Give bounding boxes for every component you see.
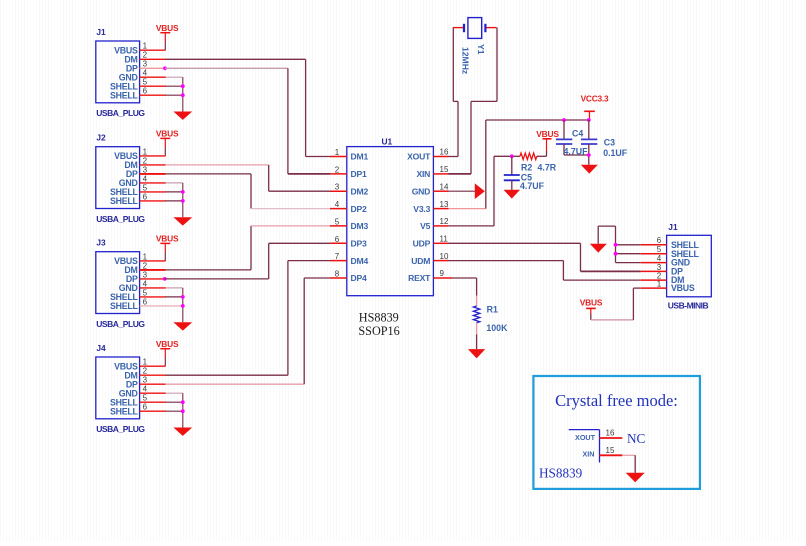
svg-text:3: 3 — [657, 263, 662, 272]
ground symbol at USB-MINIB — [590, 244, 607, 253]
svg-text:1: 1 — [143, 147, 148, 156]
svg-text:UDM: UDM — [411, 256, 430, 266]
wire U1.GND pin14 — [449, 190, 476, 192]
svg-text:Crystal free mode:: Crystal free mode: — [555, 391, 678, 410]
svg-text:NC: NC — [627, 431, 646, 446]
junction J2 shell pin5 — [181, 190, 185, 194]
junction rail/C4 top — [562, 118, 566, 122]
svg-text:VBUS: VBUS — [156, 23, 179, 33]
wire J3 pin4 GND to ground — [140, 288, 183, 322]
pin stubs U1 right — [433, 157, 448, 279]
svg-text:SSOP16: SSOP16 — [358, 324, 399, 338]
wire USB-MINIB shells/GND to ground — [598, 226, 641, 263]
wire J1 pin4 GND to ground — [140, 77, 183, 111]
svg-text:U1: U1 — [382, 136, 393, 146]
wire J2 pin3 DP stub — [140, 173, 166, 175]
svg-text:C3: C3 — [604, 138, 615, 148]
svg-text:XIN: XIN — [416, 169, 430, 179]
ground symbol at J2 — [173, 217, 192, 225]
svg-text:VBUS: VBUS — [156, 234, 179, 244]
svg-text:DM1: DM1 — [351, 152, 369, 162]
svg-text:5: 5 — [657, 245, 662, 254]
wire net J2.DM to U1.DM2 — [166, 165, 331, 191]
svg-text:1: 1 — [143, 358, 148, 367]
svg-text:DP4: DP4 — [351, 273, 368, 283]
power VBUS symbol at USB-MINIB — [580, 297, 603, 314]
ground symbol at J3 — [173, 322, 192, 330]
svg-text:5: 5 — [143, 183, 148, 192]
wire J2 pin6 SHELL — [140, 200, 166, 202]
power VBUS symbol near R2 — [536, 129, 559, 152]
svg-text:VBUS: VBUS — [580, 297, 603, 307]
svg-text:2: 2 — [143, 51, 148, 60]
svg-text:SHELL: SHELL — [110, 90, 138, 100]
ground symbol at J1 — [173, 112, 192, 120]
svg-text:VBUS: VBUS — [671, 283, 695, 293]
svg-text:SHELL: SHELL — [110, 301, 138, 311]
junction rail/C3 top — [587, 118, 591, 122]
wire J1 pin6 SHELL — [140, 94, 166, 96]
svg-text:5: 5 — [143, 288, 148, 297]
svg-text:3: 3 — [143, 60, 148, 69]
wire net J2.DP to U1.DP2 — [166, 174, 331, 209]
svg-text:12: 12 — [440, 217, 449, 226]
svg-text:1: 1 — [335, 148, 340, 157]
wire J3 pin1 VBUS stub — [140, 260, 166, 262]
note box Crystal free mode — [533, 376, 700, 489]
svg-text:3: 3 — [335, 183, 340, 192]
svg-text:4.7R: 4.7R — [538, 163, 557, 173]
svg-text:V5: V5 — [420, 221, 431, 231]
ground symbol in note — [626, 473, 645, 483]
svg-text:6: 6 — [335, 235, 340, 244]
wire net J4.DP to U1.DP4 — [166, 278, 331, 384]
wire J3 pin2 DM stub — [140, 269, 166, 271]
wire crystal left to U1.XOUT pin16 — [449, 28, 459, 157]
connector J1 USB-MINIB box — [657, 222, 712, 311]
svg-text:8: 8 — [335, 270, 340, 279]
svg-text:J1: J1 — [668, 222, 678, 232]
svg-text:XOUT: XOUT — [575, 433, 596, 442]
junction J3 shell pin5 — [181, 295, 185, 299]
svg-text:J1: J1 — [96, 27, 106, 37]
svg-text:DP2: DP2 — [351, 204, 368, 214]
svg-text:4: 4 — [143, 279, 148, 288]
svg-text:5: 5 — [143, 78, 148, 87]
svg-text:DM4: DM4 — [351, 256, 369, 266]
wire J4 pin5 SHELL — [140, 401, 166, 403]
capacitor C3 0.1UF — [581, 120, 628, 165]
junction USB-MINIB shell5 — [614, 252, 618, 256]
wire J1 pin2 DM stub — [140, 58, 166, 60]
wire J2 pin2 DM stub — [140, 164, 166, 166]
svg-text:DM2: DM2 — [351, 186, 369, 196]
crystal Y1 12MHz — [453, 18, 497, 75]
junction J2 shell pin6 — [181, 199, 185, 203]
svg-text:UDP: UDP — [413, 239, 431, 249]
svg-text:6: 6 — [143, 297, 148, 306]
svg-text:4.7UF: 4.7UF — [564, 146, 589, 156]
wire J4 pin1 VBUS stub — [140, 365, 166, 367]
op-amp U1 HS8839 SSOP16 body — [335, 136, 449, 295]
pin 16 stub NC in note — [600, 429, 646, 446]
svg-text:2: 2 — [143, 156, 148, 165]
power VCC3.3 symbol — [581, 94, 609, 120]
wire J2 pin4 GND to ground — [140, 183, 183, 217]
svg-text:GND: GND — [412, 186, 431, 196]
capacitor C5 4.7UF — [504, 156, 545, 191]
wire J2 pin1 VBUS stub — [140, 155, 166, 157]
junction J4 shell pin5 — [181, 400, 185, 404]
svg-text:15: 15 — [440, 165, 449, 174]
svg-text:12MHz: 12MHz — [461, 47, 471, 74]
resistor R2 4.7R — [520, 153, 557, 173]
wire J1 pin1 VBUS stub — [140, 49, 166, 51]
connector J3 USBA_PLUG box — [96, 238, 148, 329]
svg-text:9: 9 — [440, 269, 445, 278]
wire J4 pin6 SHELL — [140, 410, 166, 412]
junction USB-MINIB shell6 — [614, 243, 618, 247]
junction J3 DP — [163, 277, 167, 281]
connector J4 USBA_PLUG box — [96, 343, 148, 434]
svg-text:13: 13 — [440, 200, 449, 209]
power VBUS symbol at J3 — [156, 234, 179, 261]
svg-text:HS8839: HS8839 — [539, 466, 583, 481]
wire R1 to ground — [476, 323, 478, 349]
svg-text:REXT: REXT — [408, 273, 431, 283]
junction C4/C3 bottom — [587, 153, 591, 157]
svg-text:16: 16 — [440, 148, 449, 157]
svg-text:5: 5 — [335, 217, 340, 226]
wire J3 pin5 SHELL — [140, 296, 166, 298]
wire U1.V3.3 pin13 to VCC rail — [449, 120, 589, 209]
svg-text:4: 4 — [143, 385, 148, 394]
capacitor C4 4.7UF — [556, 120, 589, 156]
ground symbol under C5 — [504, 190, 521, 199]
power VBUS symbol at J2 — [156, 129, 179, 156]
ground symbol under R1 — [468, 349, 485, 358]
wire crystal right to U1.XIN pin15 — [449, 28, 498, 174]
wire U1.REXT pin9 to R1 — [449, 278, 477, 306]
wire J2 pin5 SHELL — [140, 191, 166, 193]
svg-text:4.7UF: 4.7UF — [520, 181, 545, 191]
svg-text:VBUS: VBUS — [156, 129, 179, 139]
junction J1 shell pin5 — [181, 84, 185, 88]
wire U1.UDM pin10 to USB-MINIB DM — [449, 261, 641, 281]
svg-text:C4: C4 — [572, 128, 583, 138]
wire J4 pin3 DP stub — [140, 383, 166, 385]
svg-text:J4: J4 — [96, 343, 106, 353]
wire J3 pin3 DP stub — [140, 278, 165, 280]
wire J4 pin2 DM stub — [140, 374, 166, 376]
svg-text:USBA_PLUG: USBA_PLUG — [96, 319, 145, 329]
svg-text:3: 3 — [143, 270, 148, 279]
wire U1.UDP pin11 to USB-MINIB DP — [449, 243, 641, 271]
svg-text:DP3: DP3 — [351, 239, 368, 249]
wire R2 to VBUS — [537, 151, 547, 156]
wire J3 pin6 SHELL — [140, 305, 183, 307]
pin stubs USB-MINIB — [641, 245, 667, 288]
svg-text:6: 6 — [143, 403, 148, 412]
junction J1 shell pin6 — [181, 93, 185, 97]
svg-text:VBUS: VBUS — [536, 129, 559, 139]
svg-text:3: 3 — [143, 376, 148, 385]
svg-text:XOUT: XOUT — [407, 152, 431, 162]
connector J1 USBA_PLUG box — [96, 27, 148, 118]
wire net J1.DM to U1.DM1 — [166, 59, 331, 156]
svg-text:USB-MINIB: USB-MINIB — [668, 301, 709, 311]
wire net J4.DM to U1.DM4 — [166, 261, 331, 376]
svg-text:0.1UF: 0.1UF — [603, 148, 628, 158]
wire U1.V5 pin12 to R2 — [449, 156, 521, 226]
svg-text:R2: R2 — [521, 163, 532, 173]
svg-text:Y1: Y1 — [476, 44, 486, 55]
svg-text:XIN: XIN — [583, 449, 595, 458]
svg-text:4: 4 — [335, 200, 340, 209]
wire VBUS to USB-MINIB pin1 — [591, 288, 641, 320]
svg-text:DM3: DM3 — [351, 221, 369, 231]
svg-text:VBUS: VBUS — [156, 339, 179, 349]
svg-text:HS8839: HS8839 — [359, 310, 399, 324]
svg-text:4: 4 — [657, 254, 662, 263]
svg-text:SHELL: SHELL — [110, 406, 138, 416]
svg-text:10: 10 — [440, 252, 449, 261]
svg-text:J2: J2 — [96, 133, 106, 143]
junction V5/C5 node — [510, 154, 514, 158]
svg-text:1: 1 — [143, 42, 148, 51]
junction J1 DP — [163, 66, 167, 70]
svg-text:R1: R1 — [487, 304, 498, 314]
svg-text:4: 4 — [143, 69, 148, 78]
wire J1 pin3 DP stub — [140, 67, 165, 69]
ground symbol under C3 — [581, 165, 598, 174]
svg-text:VCC3.3: VCC3.3 — [581, 94, 609, 104]
pin stubs U1 left — [330, 157, 347, 279]
svg-text:USBA_PLUG: USBA_PLUG — [96, 108, 145, 118]
wire net J3.DM to U1.DM3 — [166, 226, 331, 270]
resistor R1 100K — [473, 304, 508, 332]
wire net J1.DP to U1.DP1 — [165, 68, 330, 174]
svg-text:6: 6 — [143, 87, 148, 96]
svg-text:V3.3: V3.3 — [413, 204, 430, 214]
svg-text:1: 1 — [143, 252, 148, 261]
wire net J3.DP to U1.DP3 — [165, 243, 330, 279]
junction J4 shell pin6 — [181, 409, 185, 413]
svg-text:6: 6 — [143, 192, 148, 201]
pin 15 stub to ground in note — [600, 446, 636, 473]
svg-text:7: 7 — [335, 252, 340, 261]
power VBUS symbol at J4 — [156, 339, 179, 366]
svg-text:SHELL: SHELL — [110, 196, 138, 206]
svg-text:11: 11 — [440, 235, 449, 244]
svg-text:DP1: DP1 — [351, 169, 368, 179]
svg-text:100K: 100K — [486, 323, 508, 333]
svg-text:6: 6 — [657, 236, 662, 245]
svg-text:2: 2 — [335, 165, 340, 174]
svg-text:2: 2 — [143, 367, 148, 376]
connector J2 USBA_PLUG box — [96, 133, 148, 224]
ground symbol at J4 — [173, 428, 192, 436]
svg-text:5: 5 — [143, 394, 148, 403]
wire J1 pin5 SHELL — [140, 85, 166, 87]
svg-text:USBA_PLUG: USBA_PLUG — [96, 424, 145, 434]
power VBUS symbol at J1 — [156, 23, 179, 50]
svg-text:14: 14 — [440, 182, 449, 191]
svg-text:4: 4 — [143, 174, 148, 183]
svg-text:J3: J3 — [96, 238, 106, 248]
wire J4 pin4 GND to ground — [140, 393, 183, 427]
junction J3 shell pin6 — [181, 304, 185, 308]
power arrow at U1.GND pin14 — [475, 183, 485, 199]
chip fragment HS8839 in note — [539, 430, 600, 481]
svg-text:16: 16 — [606, 429, 615, 438]
svg-text:15: 15 — [606, 446, 615, 455]
svg-text:USBA_PLUG: USBA_PLUG — [96, 214, 145, 224]
